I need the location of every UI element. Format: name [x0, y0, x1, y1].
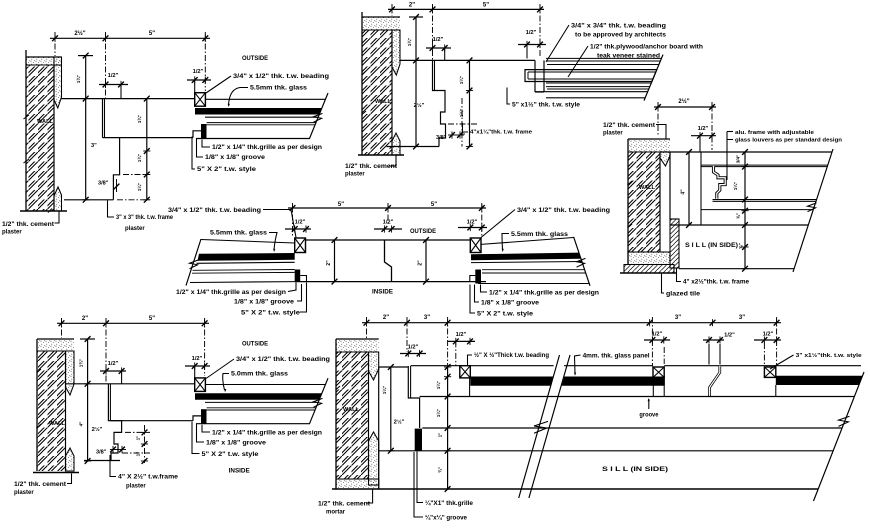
svg-text:5" X 2" t.w. style: 5" X 2" t.w. style — [197, 167, 257, 173]
detail C vertical dim 2 — [744, 152, 746, 269]
detail B frame profile staircase — [433, 60, 446, 146]
svg-text:4mm. thk. glass panel: 4mm. thk. glass panel — [583, 354, 650, 360]
svg-text:1/2" x 1/4" thk.grille as per: 1/2" x 1/4" thk.grille as per design — [212, 145, 322, 151]
detail E extension lines — [61, 318, 63, 338]
svg-text:3": 3" — [91, 143, 97, 149]
svg-text:1/2": 1/2" — [433, 37, 444, 43]
svg-text:5" X 2" t.w. style: 5" X 2" t.w. style — [477, 312, 534, 318]
svg-text:INSIDE: INSIDE — [229, 468, 250, 475]
detail D left sash bottom line — [190, 281, 295, 284]
svg-text:2½": 2½" — [74, 30, 85, 37]
svg-text:1/2": 1/2" — [456, 332, 467, 338]
detail F break mark left — [534, 421, 548, 433]
svg-text:OUTSIDE: OUTSIDE — [242, 341, 268, 348]
detail F wall bottom mortar band — [336, 479, 379, 489]
svg-text:1/2": 1/2" — [295, 220, 306, 226]
svg-text:5": 5" — [483, 3, 489, 9]
svg-text:1¾": 1¾" — [136, 154, 142, 163]
detail F vertical dim 2 — [447, 366, 449, 489]
detail F long line Y4 — [422, 427, 842, 429]
detail D inside face line — [295, 281, 486, 283]
detail E wall top plaster band — [37, 339, 74, 351]
svg-text:3/4" x 1/2" thk. t.w. beading: 3/4" x 1/2" thk. t.w. beading — [233, 74, 329, 80]
detail F meeting zigzag — [710, 366, 720, 396]
svg-text:plaster: plaster — [126, 484, 146, 490]
detail C wall bottom plaster band — [628, 252, 670, 265]
detail C lower sill line — [700, 210, 702, 225]
svg-text:3/8": 3/8" — [96, 450, 107, 456]
detail D outside face line — [306, 239, 470, 241]
svg-text:2½": 2½" — [92, 426, 103, 433]
detail B frame bottom line — [387, 146, 440, 148]
detail F frame steps — [379, 366, 409, 368]
svg-text:5": 5" — [149, 316, 155, 322]
svg-text:5.5mm thk. glass: 5.5mm thk. glass — [250, 86, 308, 92]
detail C wall right plaster strip — [660, 152, 670, 166]
detail B vertical dim line 1 — [415, 17, 417, 147]
detail F glass bar 3 — [776, 376, 863, 385]
detail C vertical dim 1 — [688, 152, 690, 225]
svg-text:2": 2" — [326, 260, 332, 266]
detail D right break diagonal — [574, 237, 590, 286]
svg-text:4" X 2½" t.w.frame: 4" X 2½" t.w.frame — [118, 474, 179, 481]
detail C wall bottom line — [620, 272, 676, 274]
detail B lines below board — [546, 82, 651, 84]
detail F wall top plaster band — [336, 339, 379, 352]
detail A grille block — [201, 124, 207, 139]
svg-text:plaster: plaster — [14, 490, 34, 496]
detail E dash-dot step lines — [125, 431, 150, 433]
svg-text:5": 5" — [149, 31, 155, 37]
detail F long line Y3 — [379, 450, 833, 452]
svg-text:5": 5" — [338, 202, 344, 208]
detail F wall hatched masonry — [336, 352, 369, 479]
svg-text:½" X ½"Thick t.w. beading: ½" X ½"Thick t.w. beading — [474, 352, 549, 359]
svg-text:2": 2" — [409, 3, 415, 9]
svg-text:1¼": 1¼" — [732, 182, 738, 191]
detail C louver bottom rail lines — [713, 199, 818, 201]
detail C t.w. frame strip — [670, 219, 679, 268]
svg-text:plaster: plaster — [2, 230, 22, 236]
detail E ground line — [33, 472, 79, 474]
detail A ground line — [20, 210, 67, 212]
detail C break mark — [808, 203, 817, 212]
svg-text:1/2": 1/2" — [193, 69, 204, 75]
svg-text:S I L L (IN SIDE): S I L L (IN SIDE) — [602, 466, 668, 473]
detail D right sash bottom line — [478, 283, 589, 285]
detail B top dimension line — [388, 8, 544, 10]
svg-text:4" x2½"thk. t.w. frame: 4" x2½"thk. t.w. frame — [683, 279, 750, 286]
detail F wall right plaster strip lower — [369, 432, 379, 485]
svg-text:OUTSIDE: OUTSIDE — [242, 55, 268, 62]
detail D left grille block — [295, 270, 301, 282]
detail A mid frame line — [103, 137, 194, 139]
detail F vertical dim 1 — [390, 367, 392, 451]
detail F wall face line — [378, 367, 380, 489]
detail C louver frame profile — [714, 167, 726, 199]
detail E wall bottom plaster strip — [66, 448, 75, 471]
detail D vertical dim right — [425, 240, 427, 282]
detail D right under-bar line — [471, 262, 582, 263]
detail C glazed tile band — [624, 265, 674, 274]
detail B vertical dim line 2 — [469, 60, 471, 146]
detail D meeting stile zigzag — [385, 240, 392, 282]
detail D extension lines — [292, 203, 294, 236]
svg-text:teak veneer stained: teak veneer stained — [597, 54, 660, 60]
detail D left beading crossed box — [295, 238, 306, 253]
detail D left pane lines — [193, 269, 295, 272]
detail F extension lines — [366, 317, 368, 338]
svg-text:1¼": 1¼" — [435, 409, 441, 418]
detail E top dimension line — [57, 322, 209, 324]
detail A break mark — [314, 113, 323, 122]
detail E frame bottom line — [84, 460, 120, 462]
svg-text:5": 5" — [431, 202, 437, 208]
svg-text:1": 1" — [136, 436, 141, 441]
detail A under-bar line — [205, 116, 318, 118]
svg-text:1/2": 1/2" — [467, 220, 478, 226]
detail A wall hatched masonry — [26, 65, 54, 211]
svg-text:WALL: WALL — [375, 99, 392, 105]
detail F grille block — [415, 429, 422, 451]
detail C wall top plaster band — [628, 139, 670, 152]
detail F break mark right — [839, 416, 850, 426]
detail A glass bar — [195, 108, 322, 115]
svg-text:1/8" x 1/8" groove: 1/8" x 1/8" groove — [234, 300, 295, 306]
svg-text:groove: groove — [639, 413, 659, 419]
detail E vertical dim line 1 — [87, 339, 89, 461]
detail F beading crossed box 1 — [460, 366, 471, 378]
svg-text:1¾": 1¾" — [75, 75, 81, 84]
detail B wall right plaster strip — [392, 30, 400, 75]
detail B wall hatched masonry — [362, 30, 392, 155]
detail D right glass bar — [471, 253, 581, 261]
detail F sill top line segments — [470, 365, 553, 367]
detail A wall edge break marks — [24, 115, 30, 163]
svg-text:1¼": 1¼" — [381, 386, 387, 395]
svg-text:WALL: WALL — [343, 407, 360, 413]
detail B ground line — [358, 154, 404, 156]
detail A top dimension line — [50, 37, 210, 39]
svg-text:1/2" thk. cement: 1/2" thk. cement — [14, 482, 66, 488]
detail E break diagonal — [309, 378, 328, 424]
detail C sill top line — [660, 151, 832, 153]
detail E beading crossed box — [195, 378, 206, 392]
detail F long line Y2 — [420, 396, 855, 398]
svg-text:1/8" x 1/8" groove: 1/8" x 1/8" groove — [481, 301, 540, 307]
svg-text:1/2": 1/2" — [192, 356, 203, 362]
svg-text:WALL: WALL — [49, 421, 66, 427]
svg-text:2": 2" — [82, 316, 88, 322]
svg-text:1/2" thk. cement: 1/2" thk. cement — [2, 222, 54, 228]
svg-text:3": 3" — [739, 315, 745, 321]
svg-text:1/2": 1/2" — [108, 361, 119, 367]
detail D right sash top line — [481, 238, 574, 245]
svg-text:3/8": 3/8" — [436, 135, 447, 141]
svg-text:¼"X1" thk.grille: ¼"X1" thk.grille — [425, 500, 474, 507]
detail D right pane lines — [482, 269, 585, 271]
detail A lower sash lines — [207, 122, 316, 124]
svg-text:1": 1" — [438, 433, 443, 438]
detail C wall hatched masonry — [628, 152, 660, 252]
detail F wall right plaster strip upper — [369, 352, 379, 380]
detail F verticals below boxes — [469, 378, 471, 397]
svg-text:2½": 2½" — [678, 98, 689, 105]
detail C wall edge break marks — [628, 181, 633, 228]
svg-text:3/4" x 3/4" thk. t.w. beading: 3/4" x 3/4" thk. t.w. beading — [571, 24, 666, 30]
detail F long line Y5 bottom — [332, 488, 818, 490]
detail D left break mark — [190, 260, 199, 269]
detail B extension lines — [391, 4, 393, 16]
svg-text:OUTSIDE: OUTSIDE — [410, 228, 436, 235]
detail A vertical dim line 2 — [146, 99, 148, 200]
svg-text:5.5mm thk. glass: 5.5mm thk. glass — [210, 231, 268, 237]
detail E lower sash lines — [207, 407, 316, 409]
svg-text:5" X 2" t.w. style: 5" X 2" t.w. style — [241, 311, 301, 317]
svg-text:glass louvers as per standard: glass louvers as per standard design — [735, 138, 842, 144]
svg-text:plaster: plaster — [345, 172, 365, 178]
svg-text:3": 3" — [424, 315, 430, 321]
detail B dash-dot step lines — [448, 123, 478, 125]
detail B plywood board with tongue — [525, 70, 657, 82]
detail A frame bottom line — [64, 199, 113, 201]
detail F wall edge break marks — [336, 386, 341, 440]
svg-text:4": 4" — [681, 189, 687, 195]
svg-text:3": 3" — [675, 315, 681, 321]
detail C sill bottom line — [679, 268, 794, 270]
detail A ground break mark — [48, 209, 52, 213]
svg-text:INSIDE: INSIDE — [372, 289, 393, 296]
detail C mid sill line — [701, 209, 813, 211]
detail A break diagonal — [309, 93, 328, 139]
detail B wall top plaster band — [362, 17, 400, 30]
detail F right break diagonal — [814, 372, 865, 501]
detail B lines above board — [546, 57, 661, 59]
detail D left break diagonal — [186, 239, 201, 286]
svg-text:1/2" x 1/4" thk.grille as per: 1/2" x 1/4" thk.grille as per design — [212, 431, 322, 437]
detail B break diagonal — [644, 55, 663, 101]
detail E glass top line — [205, 384, 325, 386]
svg-text:5.5mm thk. glass: 5.5mm thk. glass — [511, 232, 569, 238]
detail E wall right plaster strip — [66, 351, 75, 395]
detail D left under-bar line — [197, 262, 295, 263]
svg-text:3/4" x 1/2" thk. t.w. beading: 3/4" x 1/2" thk. t.w. beading — [236, 357, 330, 363]
svg-text:3/4" x 1/2" thk. t.w. beading: 3/4" x 1/2" thk. t.w. beading — [168, 208, 261, 214]
svg-text:⅝": ⅝" — [736, 213, 741, 219]
svg-text:1/2" x 1/4" thk.grille as per: 1/2" x 1/4" thk.grille as per design — [176, 290, 286, 296]
detail C upper rail lines — [700, 152, 702, 210]
svg-text:2½": 2½" — [394, 419, 405, 426]
detail F glass bar 1 — [470, 377, 553, 386]
detail A frame profile staircase — [103, 99, 120, 200]
detail E wall hatched masonry — [37, 351, 66, 471]
svg-text:2": 2" — [418, 260, 424, 266]
detail C 2.5 dimension line — [654, 106, 716, 108]
svg-text:1/2" thk. cement: 1/2" thk. cement — [318, 502, 370, 508]
detail A main head line — [62, 98, 195, 100]
detail C inner frame vertical — [669, 152, 671, 219]
detail D left style notch — [300, 276, 306, 282]
detail E vertical dim line 2 — [144, 425, 146, 463]
svg-text:1/8" x 1/8" groove: 1/8" x 1/8" groove — [206, 441, 267, 447]
svg-text:plaster: plaster — [125, 226, 145, 232]
detail D top dimension line — [288, 207, 486, 209]
detail E main head line — [66, 383, 195, 385]
detail A beading crossed box — [195, 93, 206, 107]
detail D left glass bar — [198, 253, 295, 261]
svg-text:alu. frame with adjustable: alu. frame with adjustable — [735, 130, 815, 136]
detail F beading crossed box 2 — [653, 367, 664, 377]
svg-text:4": 4" — [79, 422, 85, 427]
svg-text:2½": 2½" — [414, 102, 425, 109]
svg-text:1/2" x 1/4" thk.grille as per: 1/2" x 1/4" thk.grille as per design — [489, 291, 599, 297]
detail B main head line — [400, 59, 535, 61]
svg-text:1/2" thk.plywood/anchor board: 1/2" thk.plywood/anchor board with — [590, 45, 703, 51]
detail A extension lines — [54, 32, 56, 56]
svg-text:1/2": 1/2" — [408, 345, 419, 351]
detail E frame profile staircase — [108, 384, 121, 461]
svg-text:¾": ¾" — [437, 467, 443, 473]
svg-text:1¼": 1¼" — [136, 183, 142, 192]
detail A glass top line — [205, 98, 325, 100]
svg-text:1/2": 1/2" — [108, 73, 119, 79]
svg-text:⅝": ⅝" — [738, 243, 743, 249]
svg-text:¼"x¼" groove: ¼"x¼" groove — [425, 515, 468, 522]
detail B wall edge break marks — [362, 71, 367, 115]
detail E break mark — [314, 398, 323, 407]
svg-text:3/8": 3/8" — [98, 181, 109, 187]
svg-text:1/2" thk. cement: 1/2" thk. cement — [345, 164, 397, 170]
svg-text:5" x1½" thk. t.w. style: 5" x1½" thk. t.w. style — [512, 102, 581, 109]
svg-text:1/8" x 1/8" groove: 1/8" x 1/8" groove — [205, 155, 266, 161]
detail D right beading crossed box — [470, 238, 481, 253]
detail F glass bar 2 — [562, 377, 665, 386]
svg-text:5.0mm thk. glass: 5.0mm thk. glass — [231, 372, 289, 378]
detail E mid frame line — [110, 420, 193, 422]
svg-text:3" x 3" thk. t.w. frame: 3" x 3" thk. t.w. frame — [116, 215, 174, 221]
detail D vertical dim left — [334, 240, 336, 282]
detail E under-bar line — [205, 401, 318, 403]
svg-text:1/2": 1/2" — [383, 220, 394, 226]
svg-text:3/4" x 1/2" thk. t.w. beading: 3/4" x 1/2" thk. t.w. beading — [517, 208, 610, 214]
svg-text:1¾": 1¾" — [406, 38, 412, 47]
svg-text:1/2": 1/2" — [698, 126, 709, 132]
detail D right style notch — [470, 276, 476, 282]
svg-text:glazed tile: glazed tile — [666, 292, 701, 298]
detail C break diagonal — [793, 149, 833, 272]
svg-text:WALL: WALL — [639, 185, 656, 191]
detail B wall bottom plaster strip — [392, 133, 400, 155]
svg-text:2": 2" — [383, 315, 389, 321]
detail E grille block — [201, 409, 207, 424]
detail E glass bar — [195, 393, 322, 400]
detail F top dimension line — [362, 322, 781, 324]
svg-text:plaster: plaster — [603, 131, 623, 137]
svg-text:1¾": 1¾" — [136, 115, 142, 124]
svg-text:1¼": 1¼" — [458, 76, 464, 85]
svg-text:to be approved by architects: to be approved by architects — [575, 33, 667, 39]
svg-text:1¾": 1¾" — [78, 359, 84, 368]
svg-text:1/2": 1/2" — [652, 332, 663, 338]
svg-text:1/2" thk. cement: 1/2" thk. cement — [603, 123, 655, 129]
detail A vertical dim line 1 — [85, 56, 87, 200]
detail E wall edge break marks — [37, 369, 42, 428]
svg-text:3/4": 3/4" — [736, 155, 741, 164]
detail D right grille block — [475, 270, 481, 284]
detail A dash-dot step lines — [123, 174, 150, 176]
svg-text:4"x1¼"thk. t.w. frame: 4"x1¼"thk. t.w. frame — [470, 129, 532, 136]
detail F beading crossed box 3 — [764, 367, 775, 377]
svg-text:1¼": 1¼" — [435, 381, 441, 390]
detail D left sash top line — [201, 240, 295, 244]
svg-text:1/2": 1/2" — [526, 30, 537, 36]
svg-text:mortar: mortar — [326, 510, 346, 516]
svg-text:1¼": 1¼" — [458, 109, 464, 118]
svg-text:S I L L (IN SIDE): S I L L (IN SIDE) — [685, 242, 738, 249]
svg-text:1": 1" — [136, 452, 141, 457]
svg-text:3" x1½"thk. t.w. style: 3" x1½"thk. t.w. style — [796, 352, 863, 359]
svg-text:5" X 2" t.w. style: 5" X 2" t.w. style — [202, 452, 260, 458]
detail B t.w. style shape — [534, 60, 536, 92]
svg-text:WALL: WALL — [37, 119, 54, 125]
detail A wall right plaster strip — [54, 57, 62, 108]
detail D right break mark — [577, 258, 586, 267]
detail A wall bottom plaster strip — [54, 187, 62, 211]
svg-text:1/2": 1/2" — [724, 333, 735, 339]
detail A wall top plaster band — [26, 57, 62, 65]
detail F break diagonals — [519, 355, 560, 498]
